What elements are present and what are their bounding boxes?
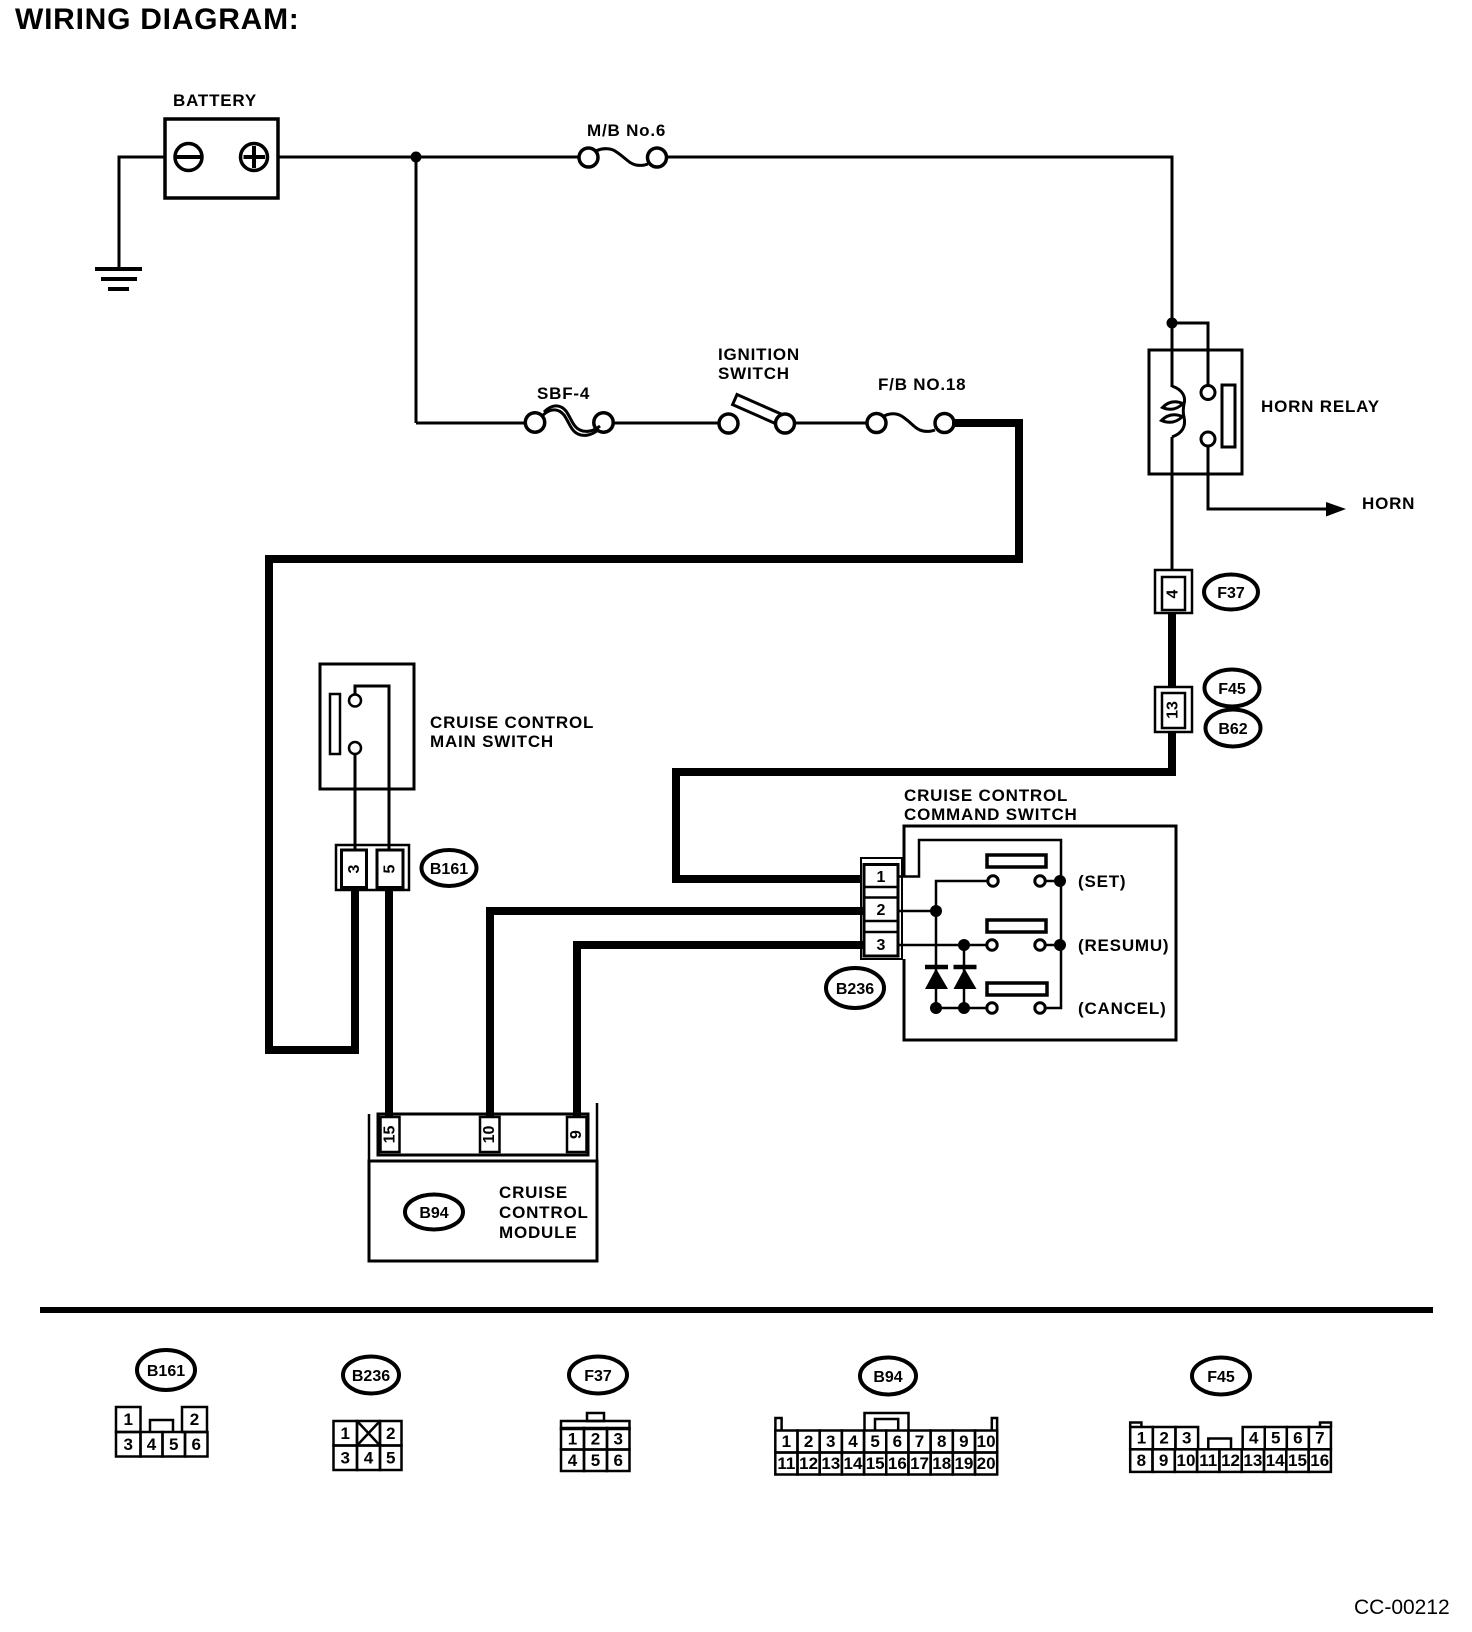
svg-text:MAIN SWITCH: MAIN SWITCH: [430, 732, 554, 751]
svg-text:2: 2: [386, 1424, 395, 1443]
wire node down through diode D2 to cancel row: [963, 945, 966, 1008]
node junction battery feed: [411, 152, 422, 163]
svg-text:2: 2: [1159, 1429, 1168, 1448]
wire junction to fuse SBF-4: [416, 422, 526, 425]
svg-text:CRUISE CONTROL: CRUISE CONTROL: [430, 713, 594, 732]
svg-text:16: 16: [888, 1454, 907, 1473]
cruise control module: [369, 1161, 597, 1261]
connector B161 label: [422, 850, 477, 886]
svg-text:9: 9: [959, 1432, 968, 1451]
svg-text:14: 14: [1266, 1451, 1285, 1470]
svg-text:2: 2: [804, 1432, 813, 1451]
svg-text:B236: B236: [836, 981, 874, 998]
svg-text:7: 7: [915, 1432, 924, 1451]
svg-text:10: 10: [481, 1126, 498, 1144]
svg-text:M/B No.6: M/B No.6: [587, 121, 666, 140]
connector F37 label: [1204, 575, 1258, 610]
wire node down through diode D1 to cancel row: [935, 911, 938, 1008]
svg-text:12: 12: [1221, 1451, 1240, 1470]
svg-text:B161: B161: [147, 1363, 185, 1380]
svg-text:17: 17: [910, 1454, 929, 1473]
svg-text:4: 4: [147, 1435, 157, 1454]
battery: [165, 91, 278, 198]
cruise control module connector pins 15,10,9: [369, 1103, 597, 1161]
svg-text:5: 5: [386, 1448, 395, 1467]
svg-text:5: 5: [1271, 1429, 1280, 1448]
svg-text:1: 1: [877, 869, 886, 886]
svg-text:F45: F45: [1207, 1369, 1235, 1386]
connector F45 pinout: [1130, 1423, 1331, 1472]
wire pin 3 stub: [898, 944, 964, 947]
svg-text:6: 6: [1293, 1429, 1302, 1448]
svg-text:HORN: HORN: [1362, 494, 1415, 513]
svg-text:1: 1: [124, 1410, 133, 1429]
CANCEL switch contacts: [987, 999, 1167, 1018]
svg-text:3: 3: [826, 1432, 835, 1451]
wire command pin 2 to module pin 10 (thick): [490, 911, 864, 1117]
svg-text:2: 2: [591, 1429, 600, 1448]
svg-text:18: 18: [932, 1454, 951, 1473]
svg-text:20: 20: [977, 1454, 996, 1473]
cruise control main switch: [320, 664, 594, 789]
svg-text:HORN RELAY: HORN RELAY: [1261, 397, 1380, 416]
svg-text:10: 10: [977, 1432, 996, 1451]
svg-text:SBF-4: SBF-4: [537, 384, 590, 403]
connector pins 3 and 5: [336, 845, 409, 890]
svg-text:3: 3: [124, 1435, 133, 1454]
connector F45 pinout label: [1192, 1358, 1250, 1395]
wire junction to relay contact: [1172, 323, 1208, 386]
connector B236 label: [826, 968, 884, 1008]
svg-text:4: 4: [364, 1448, 374, 1467]
svg-text:19: 19: [954, 1454, 973, 1473]
separator line: [40, 1307, 1433, 1313]
wire pin 1 to right bus: [898, 840, 1061, 1008]
svg-text:6: 6: [893, 1432, 902, 1451]
svg-text:CONTROL: CONTROL: [499, 1203, 589, 1222]
svg-text:WIRING DIAGRAM:: WIRING DIAGRAM:: [15, 3, 300, 36]
wire SET left contact to node: [936, 881, 987, 911]
svg-text:15: 15: [1288, 1451, 1307, 1470]
svg-text:4: 4: [848, 1432, 858, 1451]
wire command pin 3 to module pin 9 (thick): [577, 945, 864, 1117]
connector pins 1,2,3 of command switch: [861, 858, 902, 959]
connector pin 13: [1155, 687, 1192, 732]
svg-text:11: 11: [1199, 1451, 1217, 1470]
connector F37 pinout: [561, 1413, 630, 1471]
svg-text:(SET): (SET): [1078, 872, 1126, 891]
svg-text:F/B NO.18: F/B NO.18: [878, 375, 966, 394]
svg-text:8: 8: [1137, 1451, 1146, 1470]
svg-text:F37: F37: [1217, 585, 1245, 602]
svg-text:3: 3: [341, 1448, 350, 1467]
wire battery negative to ground: [119, 157, 165, 269]
svg-text:COMMAND SWITCH: COMMAND SWITCH: [904, 805, 1078, 824]
svg-text:3: 3: [877, 937, 886, 954]
svg-text:4: 4: [1249, 1429, 1259, 1448]
connector B94 pinout label: [860, 1358, 916, 1395]
svg-text:12: 12: [799, 1454, 818, 1473]
svg-text:IGNITION: IGNITION: [718, 345, 800, 364]
svg-text:4: 4: [568, 1451, 578, 1470]
svg-text:5: 5: [870, 1432, 879, 1451]
svg-text:MODULE: MODULE: [499, 1223, 577, 1242]
RESUMU switch contacts: [987, 936, 1170, 955]
wire pin 4 to pin 13 (thick): [1168, 613, 1176, 687]
ground: [95, 269, 142, 289]
svg-text:(RESUMU): (RESUMU): [1078, 936, 1169, 955]
wire main switch contact to pin 5: [388, 789, 391, 850]
wire relay to horn (arrow): [1208, 446, 1328, 509]
svg-text:10: 10: [1176, 1451, 1195, 1470]
svg-text:16: 16: [1310, 1451, 1329, 1470]
node junction D2/cancel: [958, 1002, 970, 1014]
svg-text:15: 15: [866, 1454, 885, 1473]
svg-text:5: 5: [591, 1451, 600, 1470]
wire pin 5 to module pin 15 (thick): [385, 888, 393, 1117]
svg-text:B236: B236: [352, 1368, 390, 1385]
wire CANCEL left contact line: [936, 1007, 986, 1010]
wire battery positive to fuse M/B No.6: [278, 156, 579, 159]
diode D1: [925, 967, 948, 989]
wire RESUME left contact line: [964, 944, 986, 947]
svg-text:9: 9: [1159, 1451, 1168, 1470]
wire ignition feed bus (thick) to main switch pin 3: [269, 423, 1019, 1050]
connector B161 pinout label: [137, 1350, 195, 1390]
svg-text:8: 8: [937, 1432, 946, 1451]
fuse M/B No.6: [579, 121, 667, 167]
svg-text:(CANCEL): (CANCEL): [1078, 999, 1167, 1018]
resistor R2 (RESUME): [987, 920, 1046, 932]
svg-text:6: 6: [614, 1451, 623, 1470]
svg-text:1: 1: [568, 1429, 577, 1448]
svg-text:B161: B161: [430, 861, 468, 878]
svg-text:2: 2: [877, 902, 886, 919]
connector pin 4: [1155, 570, 1192, 613]
wire ignition switch to fuse F/B NO.18: [795, 422, 868, 425]
resistor R1 (SET): [987, 855, 1046, 867]
ignition switch: [718, 345, 800, 433]
svg-text:15: 15: [382, 1126, 399, 1144]
svg-text:13: 13: [1243, 1451, 1262, 1470]
svg-text:B94: B94: [419, 1205, 448, 1222]
node junction D1/cancel: [930, 1002, 942, 1014]
connector B62 label: [1206, 710, 1261, 747]
wire junction down to SBF-4: [415, 157, 418, 423]
svg-text:F37: F37: [584, 1368, 612, 1385]
svg-text:1: 1: [1137, 1429, 1146, 1448]
svg-text:CC-00212: CC-00212: [1354, 1596, 1450, 1619]
horn relay U1: [1149, 323, 1380, 570]
connector B94 label: [405, 1195, 463, 1230]
connector B236 pinout label: [343, 1357, 399, 1394]
node junction pin2/SET: [930, 905, 942, 917]
connector B94 pinout: [775, 1413, 997, 1475]
connector F45 label: [1205, 670, 1260, 707]
diode D2: [954, 967, 977, 989]
wire SBF-4 to ignition switch: [613, 422, 719, 425]
node junction horn relay feed: [1167, 318, 1178, 329]
svg-text:BATTERY: BATTERY: [173, 91, 257, 110]
cruise control command switch box: [904, 786, 1176, 1040]
connector B161 pinout: [116, 1407, 208, 1457]
svg-text:4: 4: [1165, 589, 1182, 598]
svg-text:11: 11: [777, 1454, 795, 1473]
svg-text:B62: B62: [1218, 721, 1247, 738]
svg-text:1: 1: [341, 1424, 350, 1443]
svg-text:2: 2: [190, 1410, 199, 1429]
svg-text:CRUISE: CRUISE: [499, 1183, 568, 1202]
SET switch contacts: [988, 872, 1127, 891]
resistor R3 (CANCEL): [987, 983, 1047, 995]
svg-text:CRUISE CONTROL: CRUISE CONTROL: [904, 786, 1068, 805]
connector F37 pinout label: [569, 1357, 627, 1394]
svg-text:13: 13: [1165, 701, 1182, 719]
wire pin 2 stub: [898, 910, 936, 913]
svg-text:5: 5: [382, 864, 399, 873]
wire fuse M/B No.6 to horn relay: [667, 157, 1173, 323]
wire pin 13 to command switch pin 1 (thick): [676, 732, 1172, 879]
svg-text:B94: B94: [873, 1369, 902, 1386]
svg-text:3: 3: [614, 1429, 623, 1448]
fuse F/B NO.18: [867, 375, 966, 433]
svg-text:6: 6: [192, 1435, 201, 1454]
svg-text:13: 13: [821, 1454, 840, 1473]
svg-text:7: 7: [1315, 1429, 1324, 1448]
node junction pin3/RESUME: [958, 939, 970, 951]
wire main switch contact to pin 3: [354, 754, 357, 850]
svg-text:5: 5: [169, 1435, 178, 1454]
svg-text:14: 14: [844, 1454, 863, 1473]
svg-text:1: 1: [782, 1432, 791, 1451]
svg-text:SWITCH: SWITCH: [718, 364, 790, 383]
svg-text:3: 3: [346, 864, 363, 873]
connector B236 pinout: [334, 1421, 402, 1470]
svg-text:9: 9: [568, 1130, 585, 1139]
svg-text:3: 3: [1182, 1429, 1191, 1448]
svg-text:F45: F45: [1218, 681, 1246, 698]
fusible link SBF-4: [525, 384, 613, 435]
